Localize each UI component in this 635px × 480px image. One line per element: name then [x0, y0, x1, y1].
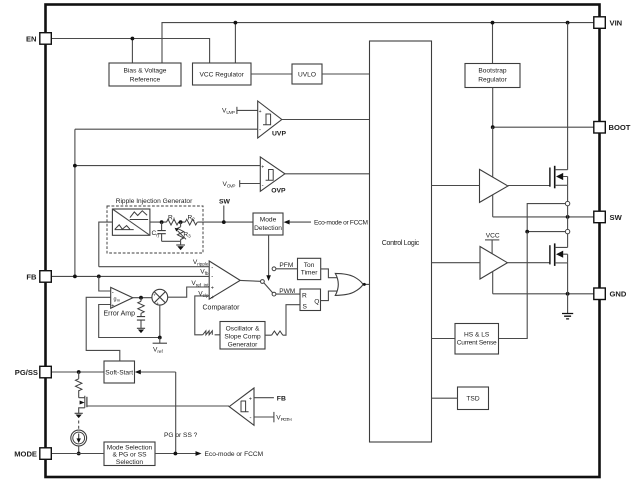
svg-text:PG/SS: PG/SS [15, 368, 38, 377]
svg-text:+: + [211, 295, 214, 301]
ground (PG/SS pulldown) [75, 412, 83, 414]
svg-text:-: - [211, 274, 213, 280]
wire: LS sense line [527, 231, 565, 233]
svg-text:UVP: UVP [272, 130, 286, 137]
svg-text:HS & LS: HS & LS [464, 332, 490, 339]
wire: HS driver return to SW [492, 195, 494, 217]
wire: OR gate output to Control Logic [363, 283, 369, 285]
node: EN branch junction [131, 37, 135, 41]
svg-text:Eco-mode or FCCM: Eco-mode or FCCM [205, 451, 264, 458]
node: FB junction to error amp [97, 275, 101, 279]
node: BOOT junction [491, 125, 495, 129]
pin GND [594, 288, 627, 300]
svg-text:+: + [111, 304, 114, 310]
node: R1 left junction [160, 220, 164, 224]
wire: oscillator to latch S input [265, 305, 300, 336]
block: UVLO [292, 64, 322, 84]
pin SW [594, 211, 623, 223]
block: Bias & Voltage Reference [109, 63, 181, 86]
svg-text:Slope Comp: Slope Comp [224, 334, 261, 341]
sawtooth symbol (oscillator right) [272, 331, 283, 335]
node: OVP branch junction [73, 164, 77, 168]
label VCC [485, 233, 500, 254]
node: FB junction to UVP/OVP [73, 275, 77, 279]
wire: MODE pin to Mode Selection [52, 453, 105, 455]
dashed box: ripple injection generator [107, 206, 203, 253]
svg-text:+: + [156, 301, 159, 306]
svg-text:Error Amp: Error Amp [104, 311, 136, 318]
node: SW junction [222, 220, 226, 224]
node: error amp output junction [139, 296, 143, 300]
svg-text:& PG or SS: & PG or SS [112, 452, 147, 459]
node: Vref junction [158, 336, 162, 340]
svg-text:-: - [259, 128, 261, 134]
resistor R1 [167, 219, 179, 225]
block: Mode Detection [253, 213, 283, 235]
wire: GND line [493, 293, 594, 295]
wire: ripple gen left output, down to Vripple [99, 222, 112, 267]
svg-text:FB: FB [277, 395, 286, 402]
transistor (PG/SS pulldown NMOS) [79, 396, 229, 414]
op-amp OVP comparator [260, 157, 286, 194]
svg-text:Soft-Start: Soft-Start [105, 370, 133, 377]
wire: Control Logic to LS driver [432, 262, 481, 264]
svg-text:Regulator: Regulator [478, 77, 507, 84]
svg-text:Ripple Injection Generator: Ripple Injection Generator [116, 198, 193, 205]
wire: FB line (pin to comparator) [52, 275, 210, 277]
wire: current source to MODE line [78, 446, 80, 454]
wire: SW tick [223, 206, 225, 223]
svg-text:BOOT: BOOT [609, 123, 631, 132]
block: TSD [458, 387, 489, 410]
switch lever to PWM [264, 283, 273, 293]
resistor (PG/SS pulldown) [78, 372, 80, 398]
svg-text:+: + [261, 164, 264, 170]
op-amp UVP comparator [258, 101, 287, 138]
wire: FB sense to OVP + input [75, 165, 260, 167]
svg-text:Detection: Detection [254, 225, 282, 232]
wire: EN branch to Bias box [131, 39, 133, 64]
svg-text:PFM: PFM [279, 262, 293, 269]
svg-text:VCC: VCC [486, 233, 500, 240]
wire: comparator output to switch pole [240, 279, 260, 282]
node: SW junction [566, 215, 570, 219]
wire: VCC Regulator to UVLO [251, 73, 292, 75]
svg-text:Comparator: Comparator [203, 305, 241, 312]
wire: Control Logic to current sense [432, 338, 456, 340]
wire: Vripple input [99, 266, 209, 268]
wire: LS driver return to GND [492, 271, 494, 293]
PFM contact [272, 267, 276, 271]
wire: UVLO to Control Logic [322, 73, 370, 75]
node: sense junction [525, 230, 529, 234]
block: VCC Regulator [193, 63, 252, 85]
pin FB [26, 271, 51, 283]
svg-text:+: + [153, 293, 156, 298]
wire: FB sense to UVP - input [75, 128, 258, 130]
svg-text:R: R [302, 292, 307, 299]
svg-text:MODE: MODE [14, 450, 37, 459]
pin EN [26, 33, 51, 45]
svg-text:GND: GND [610, 290, 627, 299]
node: PG/SS junction [77, 370, 81, 374]
sawtooth symbol (slope comp, left) [203, 331, 213, 335]
wire: VIN branch to Bootstrap Regulator [492, 23, 494, 64]
svg-text:+: + [259, 109, 262, 115]
wire: Mode Selection output (Eco-mode or FCCM arrow) [155, 453, 197, 455]
node: VIN rail junction 2 [491, 21, 495, 25]
compensation capacitor [140, 313, 142, 325]
svg-text:-: - [250, 415, 252, 421]
wire: Vslp from oscillator [195, 296, 220, 335]
wire: Vref_int from multiplier [168, 287, 210, 297]
wire: FB input to PG comparator [254, 397, 274, 399]
svg-text:OVP: OVP [271, 187, 286, 194]
wire: PFM contact to Ton Timer [276, 268, 298, 270]
comparator (main PWM comparator) [203, 261, 241, 312]
wire: PWM contact to latch R [276, 293, 300, 295]
svg-text:EN: EN [26, 34, 37, 43]
node: VIN rail junction 3 (HS FET drain) [566, 21, 570, 25]
node: selection junction [174, 452, 178, 456]
block: Soft-Start [104, 361, 135, 383]
svg-text:SW: SW [219, 198, 231, 205]
svg-text:UVLO: UVLO [298, 72, 316, 79]
waveform generator box [112, 209, 149, 235]
svg-text:Current Sense: Current Sense [457, 340, 497, 347]
node: VIN rail junction 1 [234, 21, 238, 25]
ground (ripple gen) [176, 241, 185, 250]
wire: ripple line through R1 R2 to SW / Mode Detection [150, 221, 253, 223]
svg-text:Oscillator &: Oscillator & [226, 326, 260, 333]
driver (low side) [480, 247, 507, 280]
wire: FB sense vertical [74, 129, 76, 276]
wire: HS sense to current sense block [527, 204, 565, 232]
svg-text:Bootstrap: Bootstrap [478, 68, 507, 75]
ground (compensation) [137, 327, 145, 329]
wire: BOOT to HS driver supply [492, 127, 494, 177]
wire: HS driver output to gate [508, 185, 550, 187]
wire: latch Q to OR gate [321, 291, 338, 301]
svg-text:-: - [112, 290, 114, 296]
block: RS latch [300, 289, 321, 311]
current source [71, 430, 87, 446]
svg-text:+: + [211, 286, 214, 292]
label VPGTH [254, 412, 292, 422]
wire: UVP output to Control Logic [282, 119, 370, 121]
wire: PG/SS pin to Soft-Start [52, 371, 105, 373]
wire: error amp + input to Vref node [99, 305, 160, 338]
PWM contact [272, 292, 276, 296]
block: Control Logic [370, 41, 432, 442]
op-amp PG comparator (points left) [229, 388, 254, 425]
svg-text:Q: Q [314, 298, 319, 305]
block: Bootstrap Regulator [465, 64, 520, 88]
wire: error amp output to multiplier [133, 297, 152, 299]
wire: PG or SS vertical [175, 372, 177, 454]
svg-text:S: S [303, 304, 308, 311]
svg-text:+: + [249, 396, 252, 402]
pin MODE [14, 448, 51, 460]
block: HS & LS Current Sense [455, 324, 499, 355]
svg-text:SW: SW [610, 213, 623, 222]
multiplier (X circle) [152, 289, 168, 305]
wire: SW line [493, 216, 594, 218]
pin PG/SS [15, 366, 52, 378]
wire: Ton Timer to OR gate [321, 269, 338, 278]
svg-text:Mode: Mode [260, 217, 277, 224]
resistor R3 (variable) [175, 222, 192, 241]
block: Ton Timer [298, 258, 321, 279]
node: MODE junction [77, 452, 81, 456]
wire: cap to R3 bottom [162, 240, 181, 242]
wire: BOOT line [493, 126, 594, 128]
resistor R2 [185, 219, 197, 225]
wire: selection line into Soft-Start (arrow) [140, 371, 176, 373]
wire: VIN branch to VCC Regulator [234, 23, 236, 63]
svg-text:TSD: TSD [466, 396, 479, 403]
transistor (low side NMOS) [550, 234, 568, 294]
sense contact (HS) [565, 201, 569, 205]
wire: soft-start to error amp mid input [86, 297, 120, 361]
compensation resistor [140, 298, 142, 302]
ground (power) [562, 294, 573, 319]
wire: FB to error amp - input [99, 276, 111, 291]
svg-text:Eco-mode or FCCM: Eco-mode or FCCM [314, 220, 368, 227]
wire: OVP output to Control Logic [285, 173, 370, 175]
sense contact (LS) [565, 229, 569, 233]
wire: VIN top rail [162, 23, 598, 63]
svg-text:-: - [211, 265, 213, 271]
capacitor Crj [152, 222, 166, 241]
node: GND junction [566, 292, 570, 296]
block: Oscillator & Slope Comp Generator [220, 322, 265, 350]
wire: EN line to VCC Regulator [52, 39, 210, 64]
Vref reference symbol [159, 338, 161, 344]
svg-text:PG or SS ?: PG or SS ? [164, 432, 198, 439]
label VUVP [222, 107, 258, 115]
op-amp error amp [104, 287, 136, 317]
wire: Bootstrap Regulator to BOOT line [492, 88, 494, 128]
label VOVP [223, 180, 261, 188]
wire: Control Logic to TSD [432, 397, 458, 399]
wire: SW node verticals [567, 206, 569, 230]
svg-text:Ton: Ton [304, 262, 315, 269]
svg-text:VCC Regulator: VCC Regulator [200, 72, 245, 79]
pin BOOT [594, 122, 631, 134]
svg-text:VIN: VIN [610, 19, 623, 28]
svg-text:Reference: Reference [130, 77, 161, 84]
transistor (high side NMOS) [550, 23, 568, 202]
svg-text:-: - [262, 183, 264, 189]
svg-text:Timer: Timer [301, 270, 318, 277]
wire: Mode Detection to switch arrow [268, 235, 270, 276]
node: R1-R2 junction [179, 220, 183, 224]
block: Mode Selection & PG or SS Selection [104, 442, 155, 466]
wire: LS driver output to gate [507, 262, 550, 264]
svg-text:Bias & Voltage: Bias & Voltage [124, 68, 167, 75]
svg-text:Generator: Generator [228, 342, 258, 349]
OR gate [335, 273, 363, 295]
wire: Eco-mode input arrow into Mode Detection [289, 221, 311, 223]
switch pole contact [261, 280, 265, 284]
svg-text:Selection: Selection [116, 459, 143, 466]
wire: sense vertical to current sense box [499, 232, 528, 339]
wire: multiplier to Vref node [159, 305, 161, 337]
svg-text:Mode Selection: Mode Selection [107, 445, 153, 452]
driver (high side) [480, 169, 509, 202]
dashed link to current source [78, 421, 80, 430]
svg-text:FB: FB [26, 272, 37, 281]
pin VIN [594, 17, 622, 29]
svg-text:Control Logic: Control Logic [382, 240, 420, 247]
wire: Control Logic to HS driver [432, 185, 480, 187]
